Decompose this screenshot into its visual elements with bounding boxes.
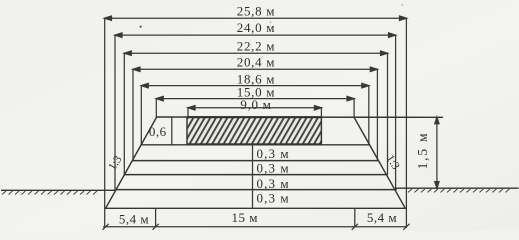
- top surface line with right extension for 1,5 m dim: [157, 116, 443, 118]
- ground hatching left: [2, 191, 97, 195]
- svg-text:22,2 м: 22,2 м: [237, 38, 275, 53]
- ground hatching right: [408, 189, 510, 193]
- ground line left: [1, 189, 116, 191]
- extension line left 20,4: [132, 69, 134, 160]
- svg-text:15 м: 15 м: [231, 210, 257, 225]
- dimension line 25,8 m: [105, 17, 407, 19]
- svg-text:1,5 м: 1,5 м: [415, 132, 430, 170]
- extension line right 25,8: [405, 18, 407, 227]
- svg-text:25,8 м: 25,8 м: [237, 3, 275, 18]
- dimension line 24,0 m: [115, 34, 396, 36]
- bottom dimension separators: [156, 209, 355, 227]
- extension line right 15,0: [353, 99, 355, 118]
- extension line left 15,0: [155, 99, 157, 117]
- svg-text:5,4 м: 5,4 м: [119, 212, 149, 227]
- svg-text:24,0 м: 24,0 м: [237, 20, 275, 35]
- vertical dimension 1,5 m: [436, 117, 438, 188]
- svg-text:0,3 м: 0,3 м: [257, 176, 290, 191]
- svg-text:20,4 м: 20,4 м: [237, 54, 275, 69]
- right slope 1:3: [354, 117, 405, 208]
- embankment outline: [106, 117, 443, 208]
- svg-text:0,3 м: 0,3 м: [257, 191, 290, 206]
- 0,6 box right edge: [171, 117, 173, 145]
- extension line left 9,0: [187, 108, 189, 117]
- label column separator for 0,3 m labels: [252, 145, 254, 209]
- dimension labels top: [237, 3, 275, 112]
- dimension line 20,4 m: [133, 68, 377, 70]
- dimension line 22,2 m: [124, 52, 387, 54]
- extension line left 24,0: [114, 35, 116, 190]
- scan specks: [140, 4, 404, 28]
- svg-text:0,3 м: 0,3 м: [257, 146, 290, 161]
- arrowheads of horizontal dimension lines: [102, 15, 408, 111]
- extension line right 22,2: [387, 53, 389, 174]
- svg-text:0,6: 0,6: [149, 124, 167, 139]
- left slope 1:3: [106, 117, 157, 208]
- extension line right 9,0: [320, 108, 322, 118]
- extension line right 24,0: [395, 35, 397, 190]
- bottom dimension labels: [119, 210, 397, 227]
- bottom dimension tick marks: [103, 224, 410, 230]
- extension line left 22,2: [123, 53, 125, 174]
- layer line 4 / ground level: [116, 189, 397, 191]
- bottom dimension line: [103, 226, 407, 228]
- layer labels 0,3 m: [257, 146, 290, 206]
- dimension line 18,6 m: [141, 85, 368, 87]
- layer line 1: [141, 144, 369, 146]
- extension line left 25,8: [104, 18, 106, 227]
- extension line right 20,4: [376, 69, 378, 160]
- dimension line 15,0 m: [156, 98, 354, 100]
- svg-text:0,3 м: 0,3 м: [257, 160, 290, 175]
- layer line 3: [125, 174, 386, 176]
- hatched pavement strip 9,0 m wide, 0,6 thick: [187, 117, 321, 144]
- extension line right 18,6: [368, 86, 370, 145]
- ground line right: [396, 187, 519, 189]
- layer line 2: [132, 160, 377, 162]
- dimension line 9,0 m: [188, 107, 321, 109]
- extension line left 18,6: [140, 86, 142, 145]
- svg-text:9,0 м: 9,0 м: [240, 97, 271, 112]
- svg-text:5,4 м: 5,4 м: [367, 210, 397, 225]
- base line: [106, 207, 406, 209]
